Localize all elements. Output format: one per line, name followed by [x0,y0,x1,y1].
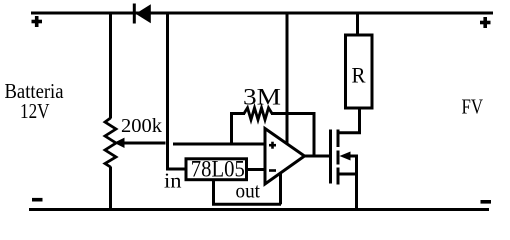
wiper arrow of potentiometer [114,138,166,148]
resistor R2 3M: left leg [230,114,233,145]
potentiometer R1 200k (zigzag) [105,118,116,167]
wire: ground jog to op-amp V- [212,203,281,206]
transistor Q1 channel segments [337,130,340,185]
wire: top rail to potentiometer [109,13,112,119]
op-amp - input marker [269,169,276,172]
wire: op-amp V- pin [279,172,282,204]
transistor Q1 MOSFET gate line [329,130,332,184]
wire: 3M right leg down to op-amp output [313,114,316,157]
svg-text:3M: 3M [243,85,281,111]
node: - terminal bottom-left [32,198,43,202]
node: + terminal top-left [32,16,43,27]
wire: op-amp output to MOSFET gate [303,155,331,158]
wire: top rail to R [356,13,359,35]
svg-text:12V: 12V [20,99,50,123]
resistor R (box) [346,35,373,108]
wire: to op-amp non-inverting input [173,143,265,146]
svg-text:R: R [352,62,366,87]
op-amp U1 [265,129,305,185]
wire: top rail to op-amp V+ [286,13,289,143]
wire: potentiometer to bottom rail [109,167,112,210]
wire: 78L05 out to op-amp inverting input [247,168,265,171]
wire: top supply rail [31,12,493,15]
wire: 78L05 ground pin down [212,181,215,204]
voltage regulator U2 78L05 [186,159,247,180]
node: + terminal top-right [480,17,491,28]
transistor Q1 body arrow [340,152,358,161]
wire: bottom supply rail [29,208,489,211]
wire: R bottom to MOSFET drain [338,108,360,133]
op-amp + input marker [269,142,276,149]
node: - terminal bottom-right [481,200,492,204]
wire: MOSFET source/body to bottom rail [355,155,358,210]
svg-text:out: out [236,179,261,203]
wire: top rail down to 78L05 input [168,13,186,169]
wire: MOSFET source stub [338,173,357,176]
resistor R2 3M: body and leads [230,108,316,120]
svg-text:200k: 200k [121,115,162,137]
svg-text:FV: FV [462,95,484,119]
svg-text:in: in [164,169,182,193]
diode D1 on top rail [134,4,151,24]
